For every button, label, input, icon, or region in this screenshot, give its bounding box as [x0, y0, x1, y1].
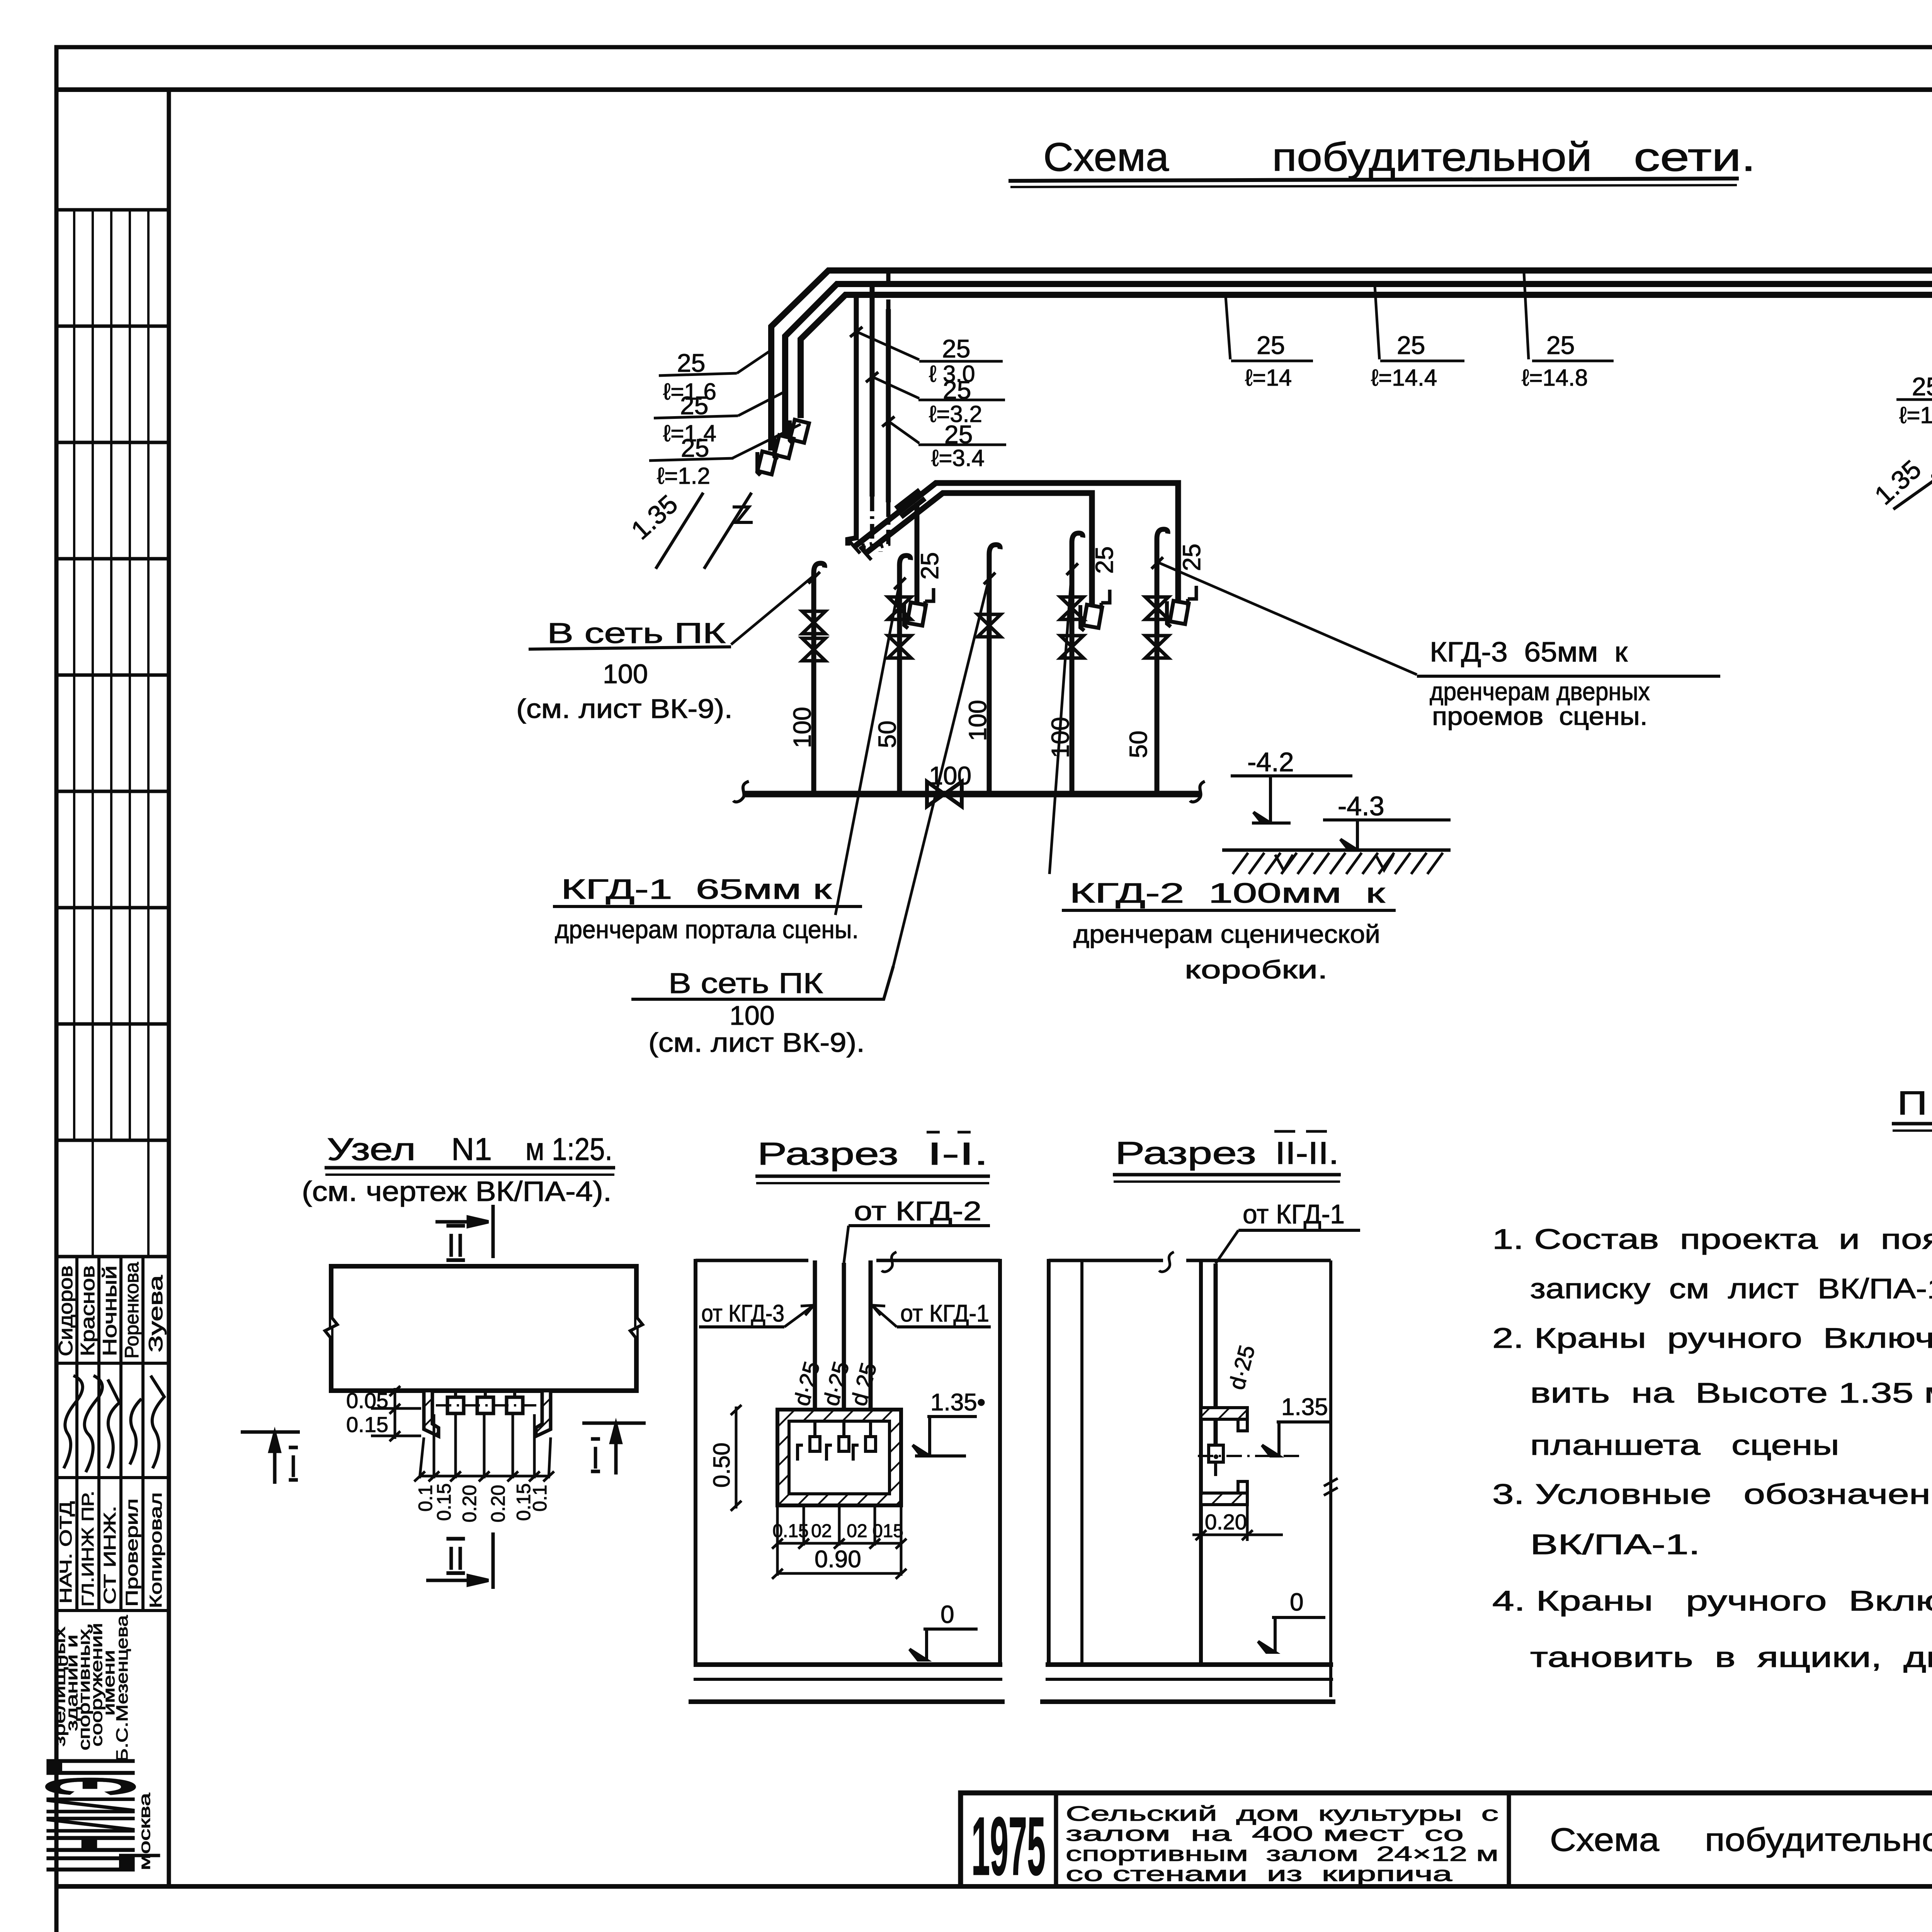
leader to V set PK upper — [731, 576, 814, 645]
riser 2 tick — [894, 578, 906, 589]
svg-text:Сельский дом культуры с: Сельский дом культуры с — [1066, 1802, 1498, 1825]
svg-text:1975: 1975 — [971, 1799, 1046, 1893]
riser 2 valve upper — [888, 597, 911, 619]
svg-text:25: 25 — [1546, 331, 1575, 359]
svg-text:I: I — [289, 1449, 298, 1483]
svg-text:0.15: 0.15 — [433, 1483, 455, 1521]
project description — [1066, 1802, 1498, 1886]
riser 4 — [1072, 533, 1083, 794]
svg-text:Разрез: Разрез — [757, 1136, 898, 1172]
right boundary break marks — [1324, 1478, 1338, 1495]
svg-text:0.90: 0.90 — [815, 1546, 861, 1573]
svg-text:0.05: 0.05 — [346, 1388, 388, 1413]
RAZREZ II-II — [1040, 1131, 1360, 1702]
pipe from KGD-3 — [813, 1260, 817, 1432]
svg-text:25: 25 — [916, 552, 944, 580]
svg-text:москва: москва — [136, 1793, 153, 1870]
svg-text:25: 25 — [1090, 546, 1118, 574]
drencher nozzle left 1 — [757, 451, 777, 475]
svg-text:Узел: Узел — [327, 1132, 416, 1167]
section marker II bottom — [426, 1532, 493, 1589]
svg-text:2. Краны ручного Включения: 2. Краны ручного Включения устано- — [1492, 1323, 1932, 1354]
wall plan rectangle — [331, 1266, 636, 1391]
riser 2 — [900, 556, 910, 794]
riser 2 valve lower — [888, 636, 911, 658]
svg-text:25: 25 — [1178, 544, 1206, 571]
title block outline — [961, 1793, 1932, 1886]
svg-text:В сеть ПК: В сеть ПК — [547, 617, 726, 649]
leader 25 l=14.4 — [1375, 286, 1379, 359]
riser 3 — [989, 545, 1000, 794]
wall top edge — [696, 1259, 1000, 1262]
svg-text:ℓ=14.4: ℓ=14.4 — [1371, 365, 1437, 391]
leader to KGD-1 label — [835, 583, 900, 915]
riser 1 tick — [808, 572, 820, 583]
svg-text:записку см лист ВК/ПА-1.: записку см лист ВК/ПА-1. — [1530, 1273, 1932, 1304]
wall left face — [694, 1259, 697, 1665]
dim 0.50 — [731, 1405, 742, 1511]
svg-text:от КГД-1: от КГД-1 — [1243, 1199, 1345, 1229]
leader 25 l=1.2 left — [732, 424, 801, 458]
manifold break left — [733, 781, 749, 802]
niche box hatched — [777, 1410, 901, 1505]
svg-text:N1: N1 — [451, 1132, 492, 1167]
wall top edge — [1049, 1259, 1331, 1262]
leader 25 l=14.8 — [1524, 273, 1529, 359]
svg-text:В сеть ПК: В сеть ПК — [668, 967, 823, 999]
manifold break right — [1190, 781, 1205, 802]
svg-text:дренчерам портала сцены.: дренчерам портала сцены. — [555, 915, 859, 944]
TITLE — [1009, 135, 1756, 187]
tick on D1 — [850, 327, 862, 337]
dim 0.05 / 0.15 — [371, 1386, 421, 1441]
svg-text:3. Условные обозначения см: 3. Условные обозначения см лист — [1492, 1479, 1932, 1510]
drop pipe D2 — [870, 285, 875, 497]
svg-text:50: 50 — [873, 721, 901, 748]
svg-text:побудительной: побудительной — [1705, 1821, 1932, 1858]
wall inner line — [1080, 1260, 1083, 1665]
drop pipe D3 dashdot head — [886, 272, 891, 309]
leader 25 l=14 — [1226, 297, 1230, 359]
drencher nozzle left 3 — [790, 420, 809, 444]
ground hatching — [1233, 853, 1443, 874]
squares axis dashdot — [436, 1404, 536, 1406]
svg-text:II-II.: II-II. — [1275, 1136, 1339, 1171]
svg-text:0: 0 — [940, 1600, 954, 1628]
riser 4 valve upper — [1060, 597, 1083, 619]
pipe square 2 — [477, 1397, 493, 1413]
niche top slab — [1201, 1408, 1247, 1419]
KGD stub pipe pair — [896, 490, 925, 517]
svg-text:от КГД-1: от КГД-1 — [900, 1300, 989, 1327]
MAIN PIPING SCHEMATIC — [656, 270, 1932, 966]
svg-text:СТ ИНЖ.: СТ ИНЖ. — [100, 1506, 119, 1604]
pipe square 3 — [507, 1397, 523, 1413]
svg-text:планшета сцены: планшета сцены — [1530, 1430, 1839, 1461]
svg-text:побудительной: побудительной — [1272, 135, 1592, 180]
hand valve box C (on KGD upper run) — [1167, 586, 1196, 627]
faucet in niche — [1209, 1445, 1223, 1462]
svg-text:1.35: 1.35 — [1281, 1394, 1328, 1420]
wall right face — [998, 1259, 1002, 1665]
svg-text:Ночный: Ночный — [99, 1265, 121, 1356]
dim 0.90 — [772, 1546, 906, 1579]
tick on D2 — [866, 372, 878, 382]
break mark right edge — [630, 1317, 643, 1338]
pipe square 1 — [447, 1397, 464, 1413]
section marker II top — [435, 1205, 493, 1258]
svg-text:II: II — [447, 1540, 465, 1577]
svg-text:сети.: сети. — [1634, 135, 1756, 180]
signature block dividers — [56, 1257, 169, 1611]
niche top lip — [1238, 1408, 1247, 1431]
top edge break — [882, 1252, 896, 1272]
svg-text:50: 50 — [1124, 731, 1152, 758]
cell divider project desc — [1507, 1793, 1511, 1886]
angle profile right — [536, 1391, 551, 1436]
svg-text:0.50: 0.50 — [709, 1442, 735, 1488]
svg-text:от КГД-2: от КГД-2 — [854, 1196, 981, 1226]
level mark -4.3 line — [1323, 820, 1451, 850]
riser 1 valve lower — [802, 638, 825, 661]
KGD pipe upper run — [854, 483, 1178, 601]
pipe from KGD-1 — [869, 1260, 873, 1432]
wall outer face — [1047, 1259, 1051, 1665]
svg-text:ГЛ.ИНЖ ПР.: ГЛ.ИНЖ ПР. — [78, 1491, 97, 1607]
svg-text:дренчерам дверных: дренчерам дверных — [1430, 677, 1650, 706]
svg-text:Краснов: Краснов — [77, 1265, 99, 1356]
manifold valve 100 — [927, 782, 962, 806]
right boundary line — [1329, 1260, 1332, 1697]
leader 25 l=3.4 — [888, 421, 919, 443]
svg-text:0.20: 0.20 — [487, 1485, 509, 1522]
svg-text:25: 25 — [1912, 372, 1932, 401]
SCHEMATIC LABELS — [516, 321, 1932, 1058]
svg-text:0.15: 0.15 — [772, 1521, 808, 1541]
svg-text:02: 02 — [847, 1521, 867, 1541]
svg-text:Схема: Схема — [1550, 1821, 1659, 1858]
svg-text:25: 25 — [1257, 331, 1285, 359]
svg-text:Роренкова: Роренкова — [121, 1262, 143, 1359]
top edge break — [1159, 1252, 1174, 1272]
svg-text:со стенами из кирпича: со стенами из кирпича — [1066, 1862, 1453, 1886]
drop pipe D1 — [848, 296, 856, 546]
svg-text:Схема: Схема — [1043, 135, 1169, 180]
svg-text:100: 100 — [1046, 717, 1074, 758]
svg-text:КГД-3 65мм к: КГД-3 65мм к — [1430, 637, 1628, 668]
svg-text:100: 100 — [603, 659, 648, 689]
riser 3 valve — [978, 614, 1001, 637]
svg-text:02: 02 — [811, 1521, 832, 1541]
svg-text:Сидоров: Сидоров — [55, 1265, 77, 1356]
KGD pipe upper break tick — [849, 540, 860, 553]
svg-text:100: 100 — [730, 1000, 775, 1031]
svg-text:(см. чертеж ВК/ПА-4).: (см. чертеж ВК/ПА-4). — [302, 1176, 612, 1207]
BOTTOM TITLE BLOCK — [961, 1793, 1932, 1932]
hand valve box A (on stub drop) — [904, 588, 934, 628]
dim 0.20 — [1192, 1505, 1283, 1541]
KGD stub drop — [915, 503, 920, 605]
pipe section N1 (top main) — [771, 270, 1932, 451]
inner frame bottom — [56, 1884, 1932, 1889]
svg-text:(см. лист ВК-9).: (см. лист ВК-9). — [516, 694, 733, 724]
level mark -4.2 line — [1231, 776, 1352, 823]
break mark left edge — [325, 1317, 337, 1338]
svg-text:100: 100 — [788, 707, 816, 748]
revision table column lines — [74, 210, 148, 1257]
hand valve box B (on KGD lower run) — [1080, 590, 1110, 631]
leader 25 l=1.4 left — [738, 391, 786, 416]
section marker I left — [241, 1432, 300, 1484]
drop pipe D2 dashdot tail — [864, 497, 872, 552]
svg-text:спортивным залом 24×12 м: спортивным залом 24×12 м — [1066, 1842, 1498, 1866]
KGD pipe lower run — [866, 493, 1092, 605]
svg-text:Б.С.Мезенцева: Б.С.Мезенцева — [113, 1615, 131, 1762]
svg-text:Зуева: Зуева — [145, 1275, 167, 1352]
floor lines — [694, 1662, 1002, 1667]
svg-text:-4.2: -4.2 — [1247, 747, 1294, 777]
svg-text:ℓ=1.2: ℓ=1.2 — [657, 463, 710, 489]
UZEL N1 DETAIL — [241, 1132, 646, 1589]
svg-text:ℓ=3.4: ℓ=3.4 — [931, 445, 985, 471]
faucet 2 — [827, 1421, 849, 1461]
niche axis dashdot — [1198, 1455, 1301, 1457]
svg-text:НАЧ. ОТД: НАЧ. ОТД — [56, 1501, 75, 1604]
inner frame top — [56, 87, 1932, 92]
svg-text:(см. лист ВК-9).: (см. лист ВК-9). — [648, 1027, 865, 1058]
svg-text:II: II — [447, 1227, 465, 1264]
svg-text:015: 015 — [872, 1521, 903, 1541]
stamp right edge — [167, 90, 171, 1886]
riser 5 valve upper — [1145, 597, 1168, 619]
svg-text:П р и м е ч а н и я:: П р и м е ч а н и я: — [1897, 1085, 1932, 1122]
svg-text:Копировал: Копировал — [146, 1492, 165, 1608]
riser 5 tick — [1151, 557, 1163, 569]
svg-text:25: 25 — [677, 349, 705, 377]
svg-text:ℓ=14: ℓ=14 — [1245, 365, 1292, 391]
svg-text:0: 0 — [1290, 1588, 1304, 1616]
section marker I right — [582, 1423, 646, 1475]
riser 4 valve lower — [1060, 636, 1083, 658]
manifold pipe — [744, 791, 1201, 798]
niche bottom slab — [1201, 1493, 1247, 1505]
RAZREZ I-I — [689, 1132, 1005, 1702]
riser 1 — [814, 563, 825, 794]
drop pipe D3 — [886, 309, 891, 502]
leader to KGD-3 label — [1158, 562, 1417, 675]
svg-text:0.1: 0.1 — [529, 1485, 551, 1512]
drencher nozzle left 2 — [774, 435, 794, 460]
KGD pipe lower break tick — [860, 547, 871, 560]
STAMP (left vertical title block) — [19, 90, 169, 1886]
svg-text:Разрез: Разрез — [1115, 1136, 1256, 1171]
institute cell rotated text — [50, 1615, 131, 1762]
niche bottom lip — [1238, 1481, 1247, 1505]
svg-text:0.20: 0.20 — [1205, 1510, 1247, 1534]
svg-text:25: 25 — [680, 391, 708, 420]
svg-text:ВК/ПА-1.: ВК/ПА-1. — [1530, 1529, 1700, 1560]
leader 25 l=1.6 left — [737, 350, 771, 373]
svg-text:дренчерам сценической: дренчерам сценической — [1073, 920, 1380, 948]
svg-text:I-I.: I-I. — [927, 1136, 988, 1172]
svg-text:100: 100 — [929, 761, 971, 790]
riser 4 tick — [1066, 563, 1078, 575]
revision table row lines — [56, 210, 169, 1257]
dim labels rotated — [415, 1483, 551, 1522]
svg-text:Проверил: Проверил — [122, 1498, 141, 1607]
angle profile left — [424, 1391, 439, 1436]
svg-text:КГД-2 100мм к: КГД-2 100мм к — [1070, 878, 1385, 909]
svg-text:I: I — [591, 1440, 600, 1475]
drop pipe D3 dashdot tail — [881, 502, 888, 552]
svg-text:коробки.: коробки. — [1185, 955, 1328, 984]
svg-text:ℓ=1.6: ℓ=1.6 — [1899, 402, 1932, 428]
svg-text:4. Краны ручного Включения: 4. Краны ручного Включения ус- — [1492, 1585, 1932, 1617]
pipe section N2 (middle main) — [785, 284, 1932, 436]
svg-text:от КГД-3: от КГД-3 — [701, 1300, 784, 1327]
leader 25 l=3.2 — [872, 377, 919, 398]
pipe section N3 (bottom main) — [801, 295, 1932, 418]
floor lines — [1046, 1662, 1333, 1667]
square stubs — [456, 1391, 515, 1397]
riser 5 valve lower — [1145, 636, 1168, 658]
names column rotated — [55, 1262, 167, 1359]
svg-text:вить на Высоте 1.35 м от у: вить на Высоте 1.35 м от уровня — [1530, 1378, 1932, 1409]
svg-text:0.15: 0.15 — [346, 1412, 388, 1437]
job titles rotated — [56, 1491, 165, 1608]
NOTES — [1492, 1085, 1932, 1673]
cell divider year — [1054, 1793, 1058, 1886]
signatures scribbles — [64, 1376, 164, 1472]
riser 3 tick — [984, 573, 995, 584]
leader 25 l=3.0 — [856, 332, 919, 360]
faucet 1 — [798, 1421, 820, 1461]
svg-text:1.35•: 1.35• — [930, 1389, 985, 1416]
svg-text:25: 25 — [942, 334, 970, 363]
niche wall face — [1199, 1260, 1203, 1665]
dim chain bottom — [414, 1414, 554, 1481]
svg-text:100: 100 — [964, 700, 992, 741]
svg-text:м 1:25.: м 1:25. — [526, 1132, 612, 1167]
svg-text:25: 25 — [1397, 331, 1425, 359]
dim chain below box — [772, 1505, 906, 1549]
title underline double — [1009, 179, 1739, 181]
svg-text:-4.3: -4.3 — [1338, 791, 1384, 821]
ground line — [1222, 849, 1451, 852]
svg-text:проемов сцены.: проемов сцены. — [1432, 702, 1648, 730]
d25 labels rotated — [789, 1359, 882, 1408]
svg-text:КГД-1 65мм к: КГД-1 65мм к — [561, 874, 832, 905]
pipe from KGD-2 — [842, 1263, 846, 1432]
faucet 3 — [853, 1421, 876, 1461]
riser 5 — [1157, 529, 1168, 794]
svg-text:1. Состав проекта и пояснит: 1. Состав проекта и пояснительную — [1492, 1224, 1932, 1255]
level 1.35 right symbol — [1893, 462, 1932, 509]
riser 1 valve upper — [802, 611, 825, 634]
svg-text:залом на 400 мест со: залом на 400 мест со — [1066, 1822, 1464, 1845]
svg-text:тановить в ящики, дверцы: тановить в ящики, дверцы — [1530, 1642, 1932, 1673]
leader to KGD-2 label — [1049, 569, 1072, 874]
pipe from KGD-1 vertical — [1214, 1264, 1218, 1447]
level 1.35 left symbol — [656, 493, 753, 569]
svg-text:0.20: 0.20 — [459, 1485, 480, 1522]
leader to V set PK lower — [893, 578, 989, 966]
tick on D3 — [882, 417, 895, 427]
svg-text:ℓ=14.8: ℓ=14.8 — [1522, 365, 1588, 391]
